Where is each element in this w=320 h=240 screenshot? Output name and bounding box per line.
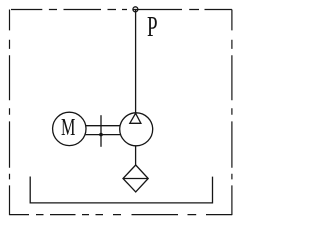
- label M: [61, 116, 75, 141]
- coupling between motor and pump (two shaft lines): [86, 125, 121, 127]
- coupling shaft tick (vertical): [100, 115, 102, 147]
- junction dot on coupling: [99, 133, 103, 137]
- enclosure boundary (dash-dot), bottom edge: [10, 214, 232, 216]
- pump flow triangle (pointing up): [130, 113, 141, 123]
- node P (port connection circle): [133, 7, 138, 12]
- filter diamond: [123, 165, 148, 192]
- enclosure boundary (dash-dot), right edge: [231, 10, 233, 216]
- tank / reservoir: [30, 177, 212, 203]
- filter element line: [123, 178, 148, 180]
- wire: pump outlet down to filter: [135, 146, 137, 165]
- pump U1 circle: [120, 113, 153, 146]
- wire: node P down to pump inlet: [135, 9, 137, 113]
- enclosure boundary (dash-dot), left edge: [9, 10, 11, 216]
- label P: [147, 13, 158, 42]
- enclosure boundary (dash-dot), top edge: [11, 9, 232, 11]
- motor M circle: [53, 112, 86, 145]
